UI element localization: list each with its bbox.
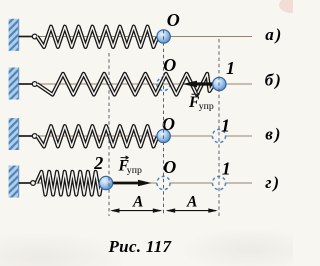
svg-text:2: 2 bbox=[93, 153, 103, 173]
svg-text:O: O bbox=[163, 157, 176, 177]
svg-text:1: 1 bbox=[221, 116, 230, 136]
svg-text:Рис. 117: Рис. 117 bbox=[108, 237, 173, 256]
svg-text:O: O bbox=[163, 55, 176, 75]
svg-text:в): в) bbox=[265, 124, 282, 143]
svg-text:б): б) bbox=[265, 70, 283, 89]
svg-text:A: A bbox=[132, 194, 143, 211]
svg-text:упр: упр bbox=[127, 165, 142, 176]
svg-text:O: O bbox=[167, 10, 180, 30]
svg-text:1: 1 bbox=[226, 58, 235, 78]
svg-text:A: A bbox=[186, 194, 197, 211]
svg-text:а): а) bbox=[265, 25, 283, 44]
svg-text:г): г) bbox=[265, 173, 281, 192]
svg-text:1: 1 bbox=[222, 158, 231, 178]
svg-text:упр: упр bbox=[199, 101, 214, 112]
